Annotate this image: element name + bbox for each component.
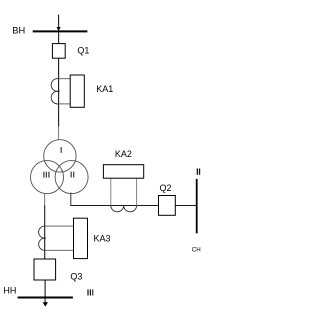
wire KA3 top link [45, 225, 74, 227]
wire KA3 bottom link [45, 249, 74, 251]
wire winding III to Q3 [44, 205, 46, 259]
svg-text:KA2: KA2 [115, 149, 132, 159]
busbar II [196, 179, 198, 233]
junction on KA3 [44, 237, 46, 239]
relay coil KA1 [70, 75, 84, 107]
wire busbar to Q1 [58, 32, 60, 43]
svg-text:BH: BH [12, 26, 25, 36]
transformer winding III circle [31, 161, 64, 194]
busbar BH (bus I) [33, 30, 88, 32]
wire Q3 to busbar HH [44, 280, 46, 303]
svg-text:Q3: Q3 [70, 271, 82, 281]
breaker Q3 [34, 259, 56, 280]
junction on KA1 [58, 90, 60, 92]
svg-text:Q2: Q2 [160, 183, 172, 193]
wire Q1 to transformer [58, 58, 60, 127]
breaker Q2 [159, 196, 176, 216]
label winding II [71, 172, 75, 178]
wire stub winding III down (gray) [44, 193, 46, 205]
label III bus [87, 289, 93, 295]
wire KA1 top link [59, 78, 71, 80]
transformer T winding I circle [44, 140, 76, 172]
relay coil KA3 [74, 218, 88, 258]
wire winding II to Q2 (bus II feeder) [70, 205, 158, 207]
svg-text:KA3: KA3 [94, 233, 111, 243]
current transformer winding KA3 arcs [39, 226, 45, 250]
wire KA2 right link [136, 178, 138, 205]
relay coil KA2 [103, 165, 143, 179]
svg-text:HH: HH [3, 286, 16, 296]
svg-text:Q1: Q1 [77, 45, 89, 55]
current transformer winding KA2 arcs [111, 206, 137, 212]
wire KA2 left link [110, 178, 112, 205]
breaker Q1 [52, 44, 65, 59]
wire stub winding II down [70, 193, 72, 206]
transformer winding II circle [55, 161, 88, 194]
busbar HH (bus III) [18, 297, 73, 299]
wire stub to winding I (gray) [58, 127, 60, 140]
svg-text:CH: CH [192, 246, 201, 253]
label II bus [197, 169, 201, 175]
label winding I [61, 147, 62, 153]
node BH incoming feeder arrow [57, 15, 61, 31]
wire Q2 to busbar II [175, 205, 196, 207]
current transformer winding KA1 arcs [51, 79, 58, 104]
svg-text:KA1: KA1 [96, 84, 113, 94]
wire KA1 bottom link [59, 103, 71, 105]
outgoing feeder arrow [43, 302, 48, 306]
label winding III [43, 172, 49, 178]
